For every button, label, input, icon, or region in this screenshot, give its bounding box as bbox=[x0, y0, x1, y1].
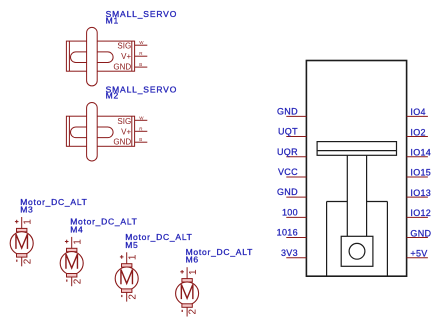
servo M2 horn horizontal bar bbox=[71, 127, 114, 138]
motor M5 top cap bbox=[122, 264, 132, 267]
motor M3 pin 2 wire bbox=[21, 257, 23, 266]
svg-text:M4: M4 bbox=[70, 224, 83, 234]
ESP32-CAM right pin labels bbox=[410, 107, 431, 258]
svg-text:V+: V+ bbox=[121, 52, 131, 61]
motor M6 body circle bbox=[176, 282, 199, 305]
ESP32-CAM camera square bbox=[341, 236, 373, 266]
svg-text:W: W bbox=[139, 40, 144, 45]
motor M4 plus sign bbox=[65, 240, 69, 244]
motor M4 top cap bbox=[67, 248, 77, 251]
svg-text:W: W bbox=[139, 115, 144, 120]
svg-text:B: B bbox=[139, 62, 142, 67]
ESP32-CAM inner body U shape bbox=[327, 202, 388, 277]
motor M3 minus dash bbox=[16, 260, 18, 262]
motor M3 pin 1 wire bbox=[21, 217, 23, 229]
ESP32-CAM antenna bar bbox=[317, 142, 396, 156]
svg-text:SIG: SIG bbox=[117, 42, 131, 51]
svg-text:GND: GND bbox=[410, 228, 431, 238]
svg-text:V+: V+ bbox=[121, 127, 131, 136]
svg-text:100: 100 bbox=[282, 207, 298, 217]
ESP32-CAM module body bbox=[306, 61, 406, 277]
svg-text:IO15: IO15 bbox=[410, 168, 431, 178]
svg-text:2: 2 bbox=[22, 258, 33, 264]
servo M1 pin wires bbox=[135, 45, 148, 67]
svg-text:VCC: VCC bbox=[278, 167, 298, 177]
motor M4 pin 2 wire bbox=[71, 277, 73, 286]
motor M6 pin 1 wire bbox=[186, 267, 188, 279]
svg-text:B: B bbox=[139, 137, 142, 142]
servo M1 pin names SIG V+ GND bbox=[113, 42, 131, 72]
svg-text:IO4: IO4 bbox=[410, 107, 425, 117]
svg-text:2: 2 bbox=[127, 294, 138, 300]
svg-text:SIG: SIG bbox=[117, 117, 131, 126]
svg-text:M2: M2 bbox=[106, 91, 120, 101]
motor M4 body circle bbox=[60, 252, 83, 275]
servo M2 horn vertical bar bbox=[87, 103, 98, 162]
servo M1 body rectangle bbox=[66, 41, 134, 71]
svg-text:GND: GND bbox=[277, 106, 298, 116]
motor M6 minus dash bbox=[181, 310, 183, 312]
ESP32-CAM left pin labels bbox=[277, 106, 298, 257]
motor M5 reference label bbox=[125, 232, 192, 250]
motor M4 reference label bbox=[70, 217, 137, 235]
motor M5 bottom cap bbox=[122, 289, 132, 293]
motor M4 letter M bbox=[66, 254, 78, 269]
svg-text:IO13: IO13 bbox=[410, 188, 431, 198]
motor M4 minus dash bbox=[66, 280, 68, 282]
svg-text:3V3: 3V3 bbox=[281, 248, 298, 258]
ESP32-CAM stem bbox=[347, 155, 366, 236]
svg-text:IO14: IO14 bbox=[410, 147, 431, 157]
svg-text:+5V: +5V bbox=[410, 248, 427, 258]
motor M5 letter M bbox=[121, 270, 133, 285]
motor M4 pin 1 wire bbox=[71, 237, 73, 249]
svg-text:GND: GND bbox=[113, 63, 131, 72]
motor M3 body circle bbox=[10, 232, 33, 255]
motor M3 plus sign bbox=[15, 220, 19, 224]
servo M1 horn horizontal bar bbox=[71, 52, 114, 63]
motor M6 letter M bbox=[181, 284, 193, 299]
servo M2 pin wires bbox=[135, 120, 148, 142]
ESP32-CAM left pin wires bbox=[286, 116, 306, 257]
svg-text:GND: GND bbox=[277, 187, 298, 197]
svg-text:M5: M5 bbox=[125, 240, 138, 250]
motor M5 plus sign bbox=[120, 255, 124, 259]
svg-text:1016: 1016 bbox=[277, 228, 298, 238]
motor M6 top cap bbox=[182, 279, 192, 282]
svg-text:UQT: UQT bbox=[278, 127, 298, 137]
motor M6 pin 2 wire bbox=[186, 307, 188, 316]
svg-text:GND: GND bbox=[113, 138, 131, 147]
motor M5 minus dash bbox=[121, 295, 123, 297]
servo M1 pin numbers W R B bbox=[139, 40, 144, 67]
svg-text:1: 1 bbox=[128, 254, 139, 260]
motor M6 plus sign bbox=[180, 270, 184, 274]
servo M1 reference label bbox=[106, 9, 178, 25]
motor M5 body circle bbox=[115, 267, 138, 290]
servo M1 horn vertical bar bbox=[87, 27, 98, 86]
svg-text:IO12: IO12 bbox=[410, 208, 431, 218]
motor M3 bottom cap bbox=[17, 254, 27, 258]
svg-text:2: 2 bbox=[188, 309, 199, 315]
svg-text:2: 2 bbox=[72, 278, 83, 284]
servo M2 pin names SIG V+ GND bbox=[113, 117, 131, 147]
svg-text:M1: M1 bbox=[106, 15, 120, 25]
motor M4 bottom cap bbox=[67, 274, 77, 278]
motor M6 bottom cap bbox=[182, 304, 192, 308]
servo M2 pin numbers W R B bbox=[139, 115, 144, 142]
svg-text:1: 1 bbox=[188, 269, 199, 275]
svg-text:1: 1 bbox=[73, 239, 84, 245]
motor M5 pin 2 wire bbox=[126, 292, 128, 301]
motor M6 reference label bbox=[186, 247, 253, 265]
svg-text:UQR: UQR bbox=[277, 147, 298, 157]
svg-text:M6: M6 bbox=[186, 255, 199, 265]
motor M3 top cap bbox=[17, 228, 27, 231]
servo M2 body rectangle bbox=[66, 116, 134, 146]
motor M3 letter M bbox=[16, 234, 28, 249]
ESP32-CAM lens circle bbox=[349, 243, 365, 259]
motor M5 pin 1 wire bbox=[126, 252, 128, 264]
svg-text:IO2: IO2 bbox=[410, 127, 425, 137]
svg-text:M3: M3 bbox=[20, 205, 33, 215]
svg-text:1: 1 bbox=[23, 219, 34, 225]
servo M2 reference label bbox=[106, 84, 178, 100]
motor M3 reference label bbox=[20, 197, 87, 215]
ESP32-CAM right pin wires bbox=[407, 116, 428, 257]
